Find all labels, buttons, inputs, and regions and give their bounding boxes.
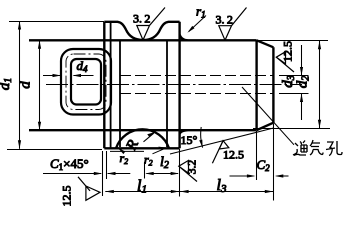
l1 arrow right [171,190,180,193]
step edge cylinder-cone [255,40,257,130]
dimension d line [39,40,41,130]
extension line chamfer C1 (pair) [102,151,104,196]
vent hole hidden line top [120,75,273,77]
roughness 3.2 in groove: long stroke [143,8,165,41]
collar top edge with groove profile [104,22,179,40]
wire: bottom edge of body cylinder [29,129,257,131]
d3 arrow lower (pointing up) [300,94,303,103]
roughness 12.5 on 15-degree line: triangle [219,141,229,149]
d1 arrow bottom [18,140,21,149]
groove wall edge right [166,41,168,147]
svg-text:C1×45°: C1×45° [50,156,89,172]
dimension d3 line lower [301,94,303,120]
气 [310,140,323,155]
dimension d2 extension bottom [253,128,330,130]
leader r1 [189,16,206,32]
extension line groove center [144,162,146,179]
svg-text:12.5: 12.5 [60,186,74,207]
15-degree arc [201,127,203,148]
vent hole hidden line bottom [120,93,273,95]
dimension l3 line [180,191,273,193]
dimension d4 left arrow [43,75,60,77]
svg-text:3. 2: 3. 2 [216,13,233,27]
collar left face [103,22,105,149]
l3 arrow left [180,190,189,193]
roughness 12.5 mid: long stroke [212,141,223,164]
dimension d1 extension top [9,21,104,23]
d2 arrow top [318,41,321,50]
l1 arrow left [105,190,114,193]
dimension l1 line [105,191,179,193]
extension line collar right face [179,149,181,197]
roughness 3.2 mid: short leg [219,26,232,41]
d arrow bottom [38,122,41,131]
dimension row l2: right piece [146,173,178,175]
dimension d3 extension top [279,75,309,77]
extension line end face [273,124,275,201]
groove wall edge left [119,41,121,147]
roughness 12.5 bottom-left: triangle [86,186,100,200]
svg-text:d1: d1 [0,78,14,91]
d3 arrow upper (pointing down) [300,67,303,76]
centerline (axis) [46,84,302,86]
d1 arrow top [18,21,21,30]
svg-text:12.5: 12.5 [223,148,244,162]
d arrow top [38,40,41,49]
right end face [272,47,274,122]
wire: top edge of body cylinder [29,39,257,41]
bail ring centerline [66,54,106,110]
dimension d1 extension bottom [7,149,102,151]
roughness 3.2 in groove: short leg [137,26,150,41]
dimension C2: right piece with left-pointing arrow [277,175,289,177]
svg-text:3. 2: 3. 2 [133,12,150,26]
collar right face [178,22,180,149]
roughness 12.5 at end face: triangle [276,52,285,64]
dimension d2 extension top [258,40,328,42]
collar left inner edge [110,23,112,148]
fillet bottom right of collar [180,130,188,134]
extension line cone start [256,131,258,180]
r2 left leader horizontal tail [110,150,144,152]
groove bottom profile arc (dome) [116,129,169,148]
svg-text:15°: 15° [181,133,198,147]
label 通气孔 (hand-drawn glyphs) [293,140,342,156]
l3 arrow right [265,190,274,193]
15-degree arc arrowhead [199,140,202,148]
孔 [326,141,342,156]
dimension d2 line [319,41,321,128]
15-degree line [170,128,274,154]
d2 arrow bottom [318,120,321,129]
cone top edge [257,40,274,47]
roughness 3.2 on mid cylinder: long stroke [225,8,247,41]
r1 arrowhead [187,26,194,33]
通 [293,143,306,156]
svg-text:d: d [18,81,34,89]
roughness 12.5 bottom-left (on C1 leader): long leg [78,177,90,191]
leader 通气孔 [242,87,294,145]
svg-text:12.5: 12.5 [281,41,295,62]
cone bottom edge [257,123,274,131]
fillet r1 top [180,35,188,41]
dimension d1 line [19,21,21,149]
roughness 3.2 bottom (rotated): triangle [179,160,189,173]
dimension d3 extension bottom [279,93,309,95]
roughness 3.2 bottom: long stroke [179,166,197,181]
collar bottom edge [104,147,179,149]
dimension d4 right arrow [74,75,94,77]
svg-text:3.2: 3.2 [187,160,199,175]
dimension d3 line upper [301,45,303,75]
dimension row l2: left piece [108,173,131,175]
bail ring inner outline [71,59,101,105]
dimension C2: left piece with right-pointing arrow [230,175,254,177]
roughness 12.5 end face: long stroke [276,57,294,72]
bail ring outer outline [61,49,111,115]
